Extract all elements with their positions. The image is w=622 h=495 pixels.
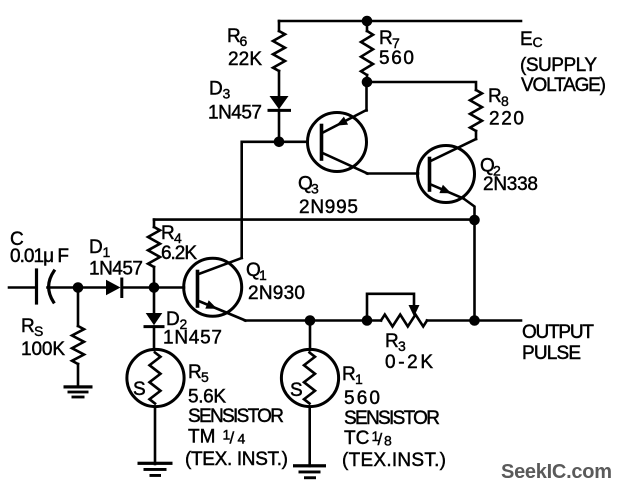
svg-text:3: 3 (311, 181, 319, 197)
label output pulse (522, 322, 594, 364)
resistor R8 (470, 90, 482, 139)
wire Q2 emitter down to output (473, 220, 476, 321)
svg-text:(TEX. INST.): (TEX. INST.) (185, 449, 288, 470)
svg-text:R: R (342, 364, 356, 385)
node junction input / Rs (73, 282, 84, 293)
svg-text:8: 8 (501, 93, 509, 109)
svg-text:R: R (488, 86, 502, 107)
label Ec supply voltage terminal (520, 29, 606, 96)
ground R5 (138, 462, 173, 477)
svg-text:D: D (209, 79, 223, 100)
svg-text:560: 560 (344, 388, 380, 409)
svg-text:S: S (290, 380, 303, 401)
label D1 1N457 (89, 237, 143, 280)
ground R1 (293, 464, 326, 479)
wire feedback R4 to Q2 emitter (154, 218, 475, 221)
resistor Rs (72, 288, 84, 387)
svg-text:S: S (133, 379, 146, 400)
wire top supply rail (279, 20, 521, 23)
svg-text:22K: 22K (228, 49, 262, 70)
label R3 0-2K (385, 331, 433, 373)
svg-text:C: C (533, 34, 543, 50)
node junction D1 / R4 / D2 / Q1 base (149, 282, 160, 293)
diode D1 (106, 279, 184, 297)
node junction R7 / Q3 emitter / R8 feed (362, 77, 373, 88)
transistor Q1 (184, 258, 246, 321)
svg-text:0-2K: 0-2K (385, 352, 433, 373)
svg-text:220: 220 (489, 109, 524, 130)
svg-text:0.01μ F: 0.01μ F (10, 246, 69, 267)
svg-text:560: 560 (379, 48, 414, 69)
svg-text:VOLTAGE): VOLTAGE) (521, 75, 606, 96)
label R5 value (185, 362, 288, 470)
diode D2 (145, 288, 163, 351)
wire R7 junction to R8 (367, 82, 476, 90)
wire input lead (9, 286, 36, 289)
resistor R3 rheostat (367, 294, 427, 327)
svg-text:6.2K: 6.2K (161, 243, 197, 264)
svg-text:4: 4 (238, 431, 246, 447)
svg-text:8: 8 (384, 433, 392, 449)
svg-text:(TEX.INST.): (TEX.INST.) (342, 450, 446, 471)
svg-text:1N457: 1N457 (208, 103, 262, 124)
label R1 value (342, 364, 446, 471)
svg-text:R: R (161, 223, 175, 244)
svg-text:R: R (21, 316, 35, 337)
svg-text:E: E (520, 29, 533, 50)
svg-text:/: / (230, 429, 235, 448)
svg-text:S: S (34, 323, 43, 339)
svg-text:1N457: 1N457 (163, 328, 222, 349)
diode D3 (269, 96, 290, 142)
label D2 1N457 (163, 309, 222, 349)
resistor R6 (273, 21, 285, 96)
node junction R1 top (305, 315, 316, 326)
label D3 1N457 (208, 79, 262, 124)
node junction Q2 emitter / feedback wire (469, 215, 480, 226)
svg-text:D: D (89, 237, 103, 258)
svg-text:SENSISTOR: SENSISTOR (188, 406, 284, 427)
svg-text:5.6K: 5.6K (188, 387, 226, 408)
sensistor R5 (127, 349, 184, 464)
svg-text:3: 3 (223, 86, 231, 102)
svg-text:R: R (385, 331, 399, 352)
svg-text:2N338: 2N338 (483, 174, 538, 195)
svg-text:R: R (188, 362, 202, 383)
svg-text:2N995: 2N995 (299, 197, 358, 218)
svg-text:TM: TM (188, 427, 215, 448)
transistor Q3 (308, 82, 368, 174)
sensistor R1 (281, 321, 338, 467)
wire output line (245, 319, 521, 322)
svg-text:TC: TC (344, 428, 369, 449)
label R6 22K (227, 26, 262, 70)
svg-text:2N930: 2N930 (248, 283, 305, 304)
svg-text:1: 1 (355, 371, 363, 387)
wire cap to D1 (78, 286, 106, 289)
svg-text:SeekIC.com: SeekIC.com (501, 461, 612, 483)
label Q2 2N338 (480, 156, 538, 196)
svg-text:1: 1 (259, 267, 267, 283)
transistor Q2 (418, 139, 477, 220)
svg-text:5: 5 (201, 369, 209, 385)
label R4 6.2K (161, 223, 197, 264)
ground Rs (64, 385, 93, 398)
node junction D3 / Q1 collector / Q3 base (274, 137, 285, 148)
label Q1 2N930 (246, 260, 305, 304)
svg-text:/: / (378, 430, 383, 449)
svg-text:6: 6 (240, 33, 248, 49)
label R7 560 (379, 28, 414, 69)
svg-text:R: R (379, 28, 393, 49)
resistor R4 (148, 220, 160, 288)
svg-text:PULSE: PULSE (522, 343, 581, 364)
svg-text:SENSISTOR: SENSISTOR (344, 408, 440, 429)
capacitor C (37, 270, 79, 303)
svg-text:100K: 100K (21, 339, 65, 360)
svg-text:(SUPPLY: (SUPPLY (520, 55, 597, 76)
label Rs 100K (21, 316, 65, 360)
wire Q3 collector to Q2 base (367, 172, 418, 175)
resistor R7 (361, 21, 373, 82)
label R8 220 (488, 86, 524, 130)
node junction output / Q2 emitter (469, 315, 480, 326)
svg-text:OUTPUT: OUTPUT (522, 322, 594, 343)
label C 0.01uF (10, 229, 69, 267)
node junction top rail / R7 (362, 16, 373, 27)
label Q3 2N995 (298, 174, 358, 219)
svg-text:1N457: 1N457 (89, 259, 143, 280)
wire Q3 base link (242, 142, 308, 258)
node junction R3 left (362, 315, 373, 326)
